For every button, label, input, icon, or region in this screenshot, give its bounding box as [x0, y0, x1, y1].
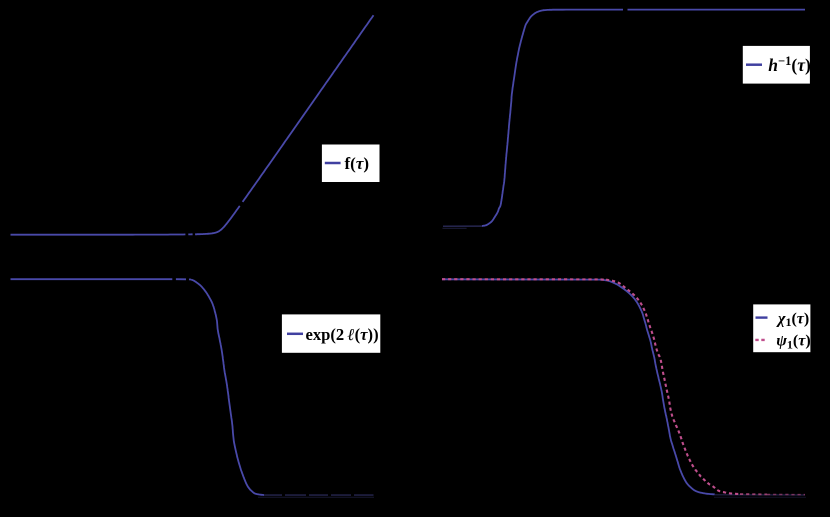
svg-text:ψ1(τ): ψ1(τ): [776, 333, 810, 352]
curve f(tau) top-left: flat then linear ramp: [11, 233, 186, 235]
legend h^-1(tau) box: [743, 46, 810, 84]
axis remnant line top-right: [443, 227, 467, 229]
legend f(tau) box: [322, 145, 380, 183]
curve h^-1(tau) top-right: sigmoid rise: [482, 10, 623, 226]
curve psi1(tau) bottom-right: dim dashed tail: [767, 494, 805, 496]
curve psi1(tau) bottom-right: dashed descent: [606, 280, 740, 494]
legend h^-1(tau) sample line: [746, 63, 762, 66]
curve chi1(tau) bottom-right: descent: [600, 280, 715, 495]
legend f(tau) sample line: [325, 162, 341, 165]
legend exp(2 l(tau)) box: [282, 314, 380, 352]
svg-text:exp(2 ℓ(τ)): exp(2 ℓ(τ)): [306, 325, 379, 344]
curve exp(2 l(tau)) bottom-left: top flat segments: [11, 278, 173, 280]
svg-text:χ1(τ): χ1(τ): [776, 310, 809, 329]
curve exp(2 l(tau)) bottom-left: descent: [191, 280, 264, 496]
curve psi1(tau) bottom-right: mid-dim dashed tail: [740, 493, 767, 495]
svg-text:f(τ): f(τ): [345, 154, 370, 173]
curve h^-1(tau) top-right: top flat after small gap: [628, 9, 806, 11]
legend exp(2 l(tau)) sample line: [287, 333, 303, 336]
legend psi1 sample dashes: [755, 339, 766, 341]
axis remnant line bottom-left: [258, 496, 374, 498]
curve chi1(tau) bottom-right: dim bottom flat: [715, 494, 805, 496]
curve psi1(tau) bottom-right: dashed flat over blue: [442, 278, 606, 281]
legend chi1 sample line: [756, 316, 768, 318]
axis remnant line bottom-right: [714, 496, 806, 498]
curve exp(2 l(tau)) bottom-left: dim bottom dashes at axis: [264, 494, 282, 496]
curve h^-1(tau) top-right: dim flat at axis level: [443, 225, 482, 227]
curve chi1(tau) bottom-right: top flat: [442, 278, 601, 280]
legend chi1/psi1 box: [753, 304, 810, 352]
